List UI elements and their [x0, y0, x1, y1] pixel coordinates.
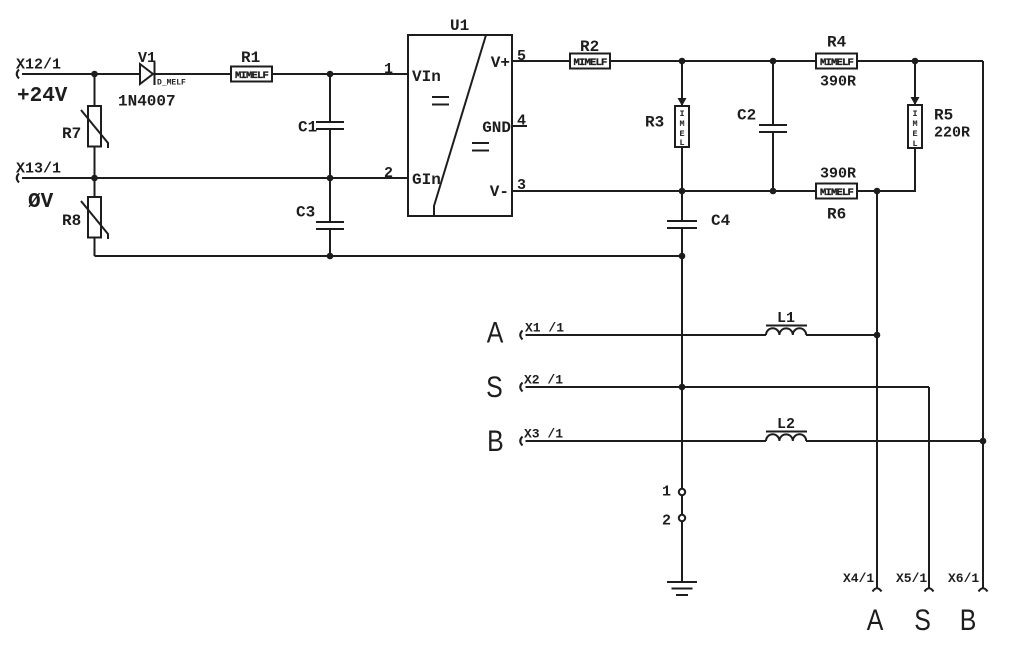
svg-text:1: 1	[384, 61, 393, 78]
node R5 top on V+ wire	[912, 58, 919, 65]
svg-text:220R: 220R	[934, 125, 970, 142]
svg-text:GIn: GIn	[412, 171, 441, 189]
svg-text:ØV: ØV	[28, 191, 54, 214]
svg-text:X13/1: X13/1	[16, 161, 61, 178]
inductor L1	[766, 326, 807, 336]
svg-text:GND: GND	[482, 119, 511, 137]
wire R7 branch vertical	[94, 74, 96, 178]
node 0V return on ground line	[679, 253, 686, 260]
pin number 3	[517, 177, 526, 194]
label B bottom	[960, 603, 977, 637]
resistor R8 (varistor)	[81, 178, 108, 256]
svg-text:E: E	[912, 129, 917, 139]
capacitor C4	[667, 191, 697, 489]
svg-text:R2: R2	[580, 38, 599, 56]
svg-text:L1: L1	[777, 310, 795, 327]
svg-text:V+: V+	[491, 54, 510, 72]
svg-text:C1: C1	[298, 119, 317, 137]
svg-text:MIMELF: MIMELF	[820, 57, 854, 69]
label X3 /1	[524, 427, 563, 442]
label 0V	[28, 191, 54, 214]
pin number 5	[517, 48, 526, 65]
label C4	[711, 212, 731, 230]
label contact 1	[662, 484, 671, 501]
resistor R4	[816, 54, 857, 70]
label U1	[450, 17, 469, 35]
label R2	[580, 38, 599, 56]
label R5	[934, 107, 953, 125]
node R7 branch on +24V wire	[91, 71, 98, 78]
label 220R of R5	[934, 125, 970, 142]
label V1	[138, 50, 156, 67]
wire U1 pin 3 to R6	[512, 190, 816, 192]
svg-text:A: A	[487, 315, 504, 349]
terminal X12/1	[17, 70, 19, 79]
svg-text:X4/1: X4/1	[843, 571, 874, 586]
svg-text:R1: R1	[241, 49, 260, 67]
node R3 top on V+ wire	[679, 58, 686, 65]
wire X1/1 to L1	[526, 334, 767, 336]
label A bottom	[867, 603, 884, 637]
label +24V	[17, 85, 68, 108]
label R8	[62, 212, 81, 230]
label R4	[827, 34, 847, 52]
label 390R of R4	[820, 74, 856, 91]
jumper contact 2	[679, 515, 685, 521]
terminal X6/1	[979, 588, 988, 591]
svg-text:X2 /1: X2 /1	[524, 373, 563, 388]
svg-text:VIn: VIn	[412, 68, 441, 86]
resistor R5	[908, 61, 922, 191]
svg-text:MIMELF: MIMELF	[235, 70, 269, 82]
resistor R6	[816, 184, 857, 200]
svg-text:I: I	[679, 109, 684, 119]
wire contact 2 to ground	[681, 521, 683, 582]
label 390R of R6	[820, 166, 856, 183]
wire between contacts	[681, 495, 683, 515]
wire L2 to right edge	[806, 440, 983, 442]
svg-text:MIMELF: MIMELF	[820, 187, 854, 199]
pin number 1	[384, 61, 393, 78]
svg-text:X3 /1: X3 /1	[524, 427, 563, 442]
svg-text:L: L	[679, 138, 684, 148]
svg-text:R7: R7	[62, 125, 81, 143]
svg-text:R6: R6	[827, 206, 846, 224]
label X13/1	[16, 161, 61, 178]
inductor L2	[766, 432, 807, 442]
svg-text:4: 4	[517, 113, 526, 130]
label L1	[777, 310, 795, 327]
label B left	[487, 424, 504, 458]
wire V1 to R1	[155, 73, 232, 75]
svg-text:X1 /1: X1 /1	[525, 321, 564, 336]
label X4/1	[843, 571, 874, 586]
wire X2/1 to X5/1 corner	[526, 386, 930, 388]
svg-text:L: L	[912, 139, 917, 149]
svg-text:D_MELF: D_MELF	[157, 79, 186, 88]
label A left	[487, 315, 504, 349]
svg-text:U1: U1	[450, 17, 469, 35]
terminal X1/1	[520, 331, 522, 340]
svg-text:MIMELF: MIMELF	[573, 57, 607, 69]
terminal X13/1	[17, 174, 19, 183]
terminal X4/1	[873, 588, 882, 591]
svg-text:L2: L2	[777, 416, 795, 433]
svg-text:2: 2	[384, 165, 393, 182]
capacitor C3	[316, 178, 344, 256]
pin number 4	[517, 113, 526, 130]
svg-text:B: B	[960, 603, 977, 637]
resistor R7 (varistor)	[81, 106, 108, 148]
label C2	[737, 107, 756, 125]
svg-text:C3: C3	[296, 204, 315, 222]
svg-text:R8: R8	[62, 212, 81, 230]
label R3	[645, 114, 664, 132]
label X5/1	[896, 571, 927, 586]
wire L1 to X4/1 line	[806, 334, 877, 336]
svg-text:+24V: +24V	[17, 85, 68, 108]
DC/DC converter U1	[408, 35, 527, 216]
svg-text:X6/1: X6/1	[948, 571, 979, 586]
wire X3/1 to L2	[526, 440, 767, 442]
node B wire to X6/1 line	[980, 438, 987, 445]
svg-text:X12/1: X12/1	[16, 57, 61, 74]
svg-text:1N4007: 1N4007	[118, 93, 176, 111]
wire R2 to R4	[610, 60, 816, 62]
wire X6/1 vertical right edge	[982, 61, 984, 588]
svg-text:S: S	[486, 370, 503, 404]
svg-text:V1: V1	[138, 50, 156, 67]
svg-text:5: 5	[517, 48, 526, 65]
svg-text:B: B	[487, 424, 504, 458]
label C3	[296, 204, 315, 222]
svg-text:1: 1	[662, 484, 671, 501]
label contact 2	[662, 513, 671, 530]
node A wire to X4/1 line	[874, 332, 881, 339]
node S wire to ground line	[679, 384, 686, 391]
svg-text:390R: 390R	[820, 74, 856, 91]
node C1 branch on VIn wire	[327, 71, 334, 78]
wire X4/1 vertical	[876, 191, 878, 588]
svg-text:V-: V-	[490, 183, 509, 201]
svg-text:C2: C2	[737, 107, 756, 125]
label L2	[777, 416, 795, 433]
terminal X5/1	[925, 588, 934, 591]
svg-text:390R: 390R	[820, 166, 856, 183]
wire R1 to U1 pin 1	[272, 73, 408, 75]
jumper contact 1	[679, 489, 685, 495]
svg-text:2: 2	[662, 513, 671, 530]
label R1	[241, 49, 260, 67]
label X2 /1	[524, 373, 563, 388]
svg-text:R4: R4	[827, 34, 847, 52]
wire R8 to ground line	[95, 255, 683, 257]
svg-text:A: A	[867, 603, 884, 637]
terminal X3/1	[520, 437, 522, 446]
terminal X2/1	[520, 383, 522, 392]
diode V1	[140, 62, 155, 85]
capacitor C1	[316, 74, 344, 178]
resistor R2	[570, 54, 610, 70]
resistor R3	[675, 61, 689, 191]
wire U1 pin 5 to R2	[512, 60, 570, 62]
wire R6 to R5 bottom	[857, 190, 916, 192]
svg-text:I: I	[912, 109, 917, 119]
ground	[667, 582, 697, 595]
capacitor C2	[759, 61, 787, 191]
wire X12/1 to diode V1	[22, 73, 140, 75]
svg-text:R5: R5	[934, 107, 953, 125]
svg-text:R3: R3	[645, 114, 664, 132]
svg-text:M: M	[679, 119, 684, 129]
node C2 bottom on V- wire	[770, 188, 777, 195]
label C1	[298, 119, 317, 137]
label S left	[486, 370, 503, 404]
svg-text:X5/1: X5/1	[896, 571, 927, 586]
resistor R1	[231, 67, 272, 83]
wire X5/1 vertical	[928, 387, 930, 588]
node R8 branch on 0V wire	[91, 175, 98, 182]
pin number 2	[384, 165, 393, 182]
label 1N4007	[118, 93, 176, 111]
node C1/C3 on 0V wire	[327, 175, 334, 182]
svg-text:S: S	[914, 603, 931, 637]
label X6/1	[948, 571, 979, 586]
svg-text:M: M	[912, 119, 917, 129]
node X4/1 branch on V- wire	[874, 188, 881, 195]
label X1 /1	[525, 321, 564, 336]
node C2 top on V+ wire	[770, 58, 777, 65]
wire R4 to top right corner	[857, 60, 983, 62]
label R6	[827, 206, 846, 224]
node C3 bottom on wire	[327, 253, 334, 260]
label X12/1	[16, 57, 61, 74]
wire X13/1 to U1 pin 2	[22, 177, 408, 179]
label S bottom	[914, 603, 931, 637]
label D_MELF	[157, 79, 186, 88]
svg-text:C4: C4	[711, 212, 731, 230]
label R7	[62, 125, 81, 143]
node ground line on V- wire	[679, 188, 686, 195]
